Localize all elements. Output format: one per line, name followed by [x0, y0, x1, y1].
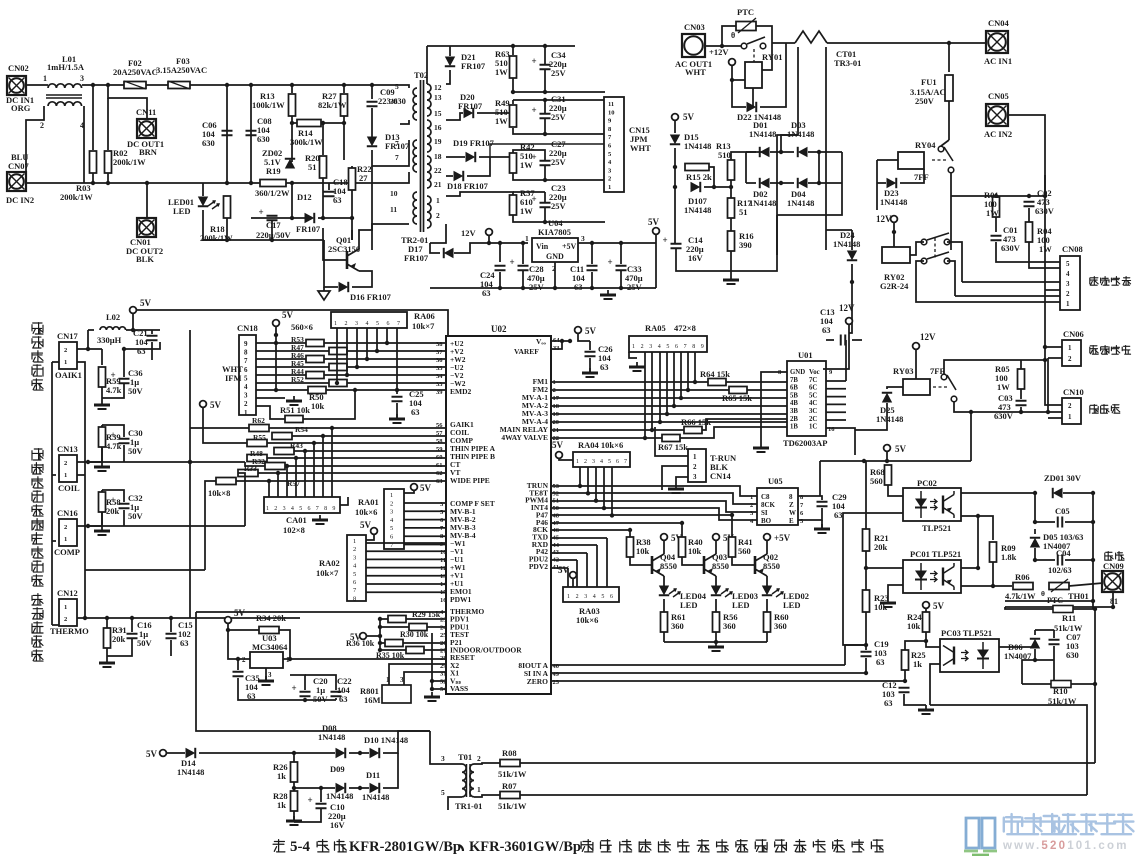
wire [294, 787, 335, 789]
svg-text:6: 6 [387, 321, 390, 327]
svg-text:RA04 10k×6: RA04 10k×6 [578, 440, 623, 450]
svg-text:30: 30 [390, 97, 398, 106]
svg-text:8: 8 [324, 506, 327, 512]
wire rail x190 lower [189, 428, 191, 618]
svg-text:www.520101.com: www.520101.com [1002, 840, 1129, 852]
relay RY02 contact b [921, 252, 950, 264]
svg-text:4.7k/1W: 4.7k/1W [1005, 591, 1036, 601]
svg-text:RY03: RY03 [893, 366, 913, 376]
wire [522, 271, 524, 288]
connector CN02 [7, 76, 26, 95]
wire [279, 630, 290, 659]
svg-text:50V: 50V [128, 386, 144, 396]
svg-text:20k: 20k [112, 634, 126, 644]
svg-text:3: 3 [440, 501, 444, 508]
svg-text:8550: 8550 [763, 561, 780, 571]
watermark book icon [966, 818, 995, 848]
svg-text:12V: 12V [920, 332, 936, 342]
junction [342, 83, 346, 87]
wire [732, 65, 745, 80]
svg-text:9: 9 [332, 506, 335, 512]
wire [83, 106, 85, 124]
wire [366, 635, 380, 637]
svg-text:+12V: +12V [709, 47, 729, 57]
svg-text:D11: D11 [366, 770, 380, 780]
wire [766, 632, 768, 642]
junction [543, 132, 547, 136]
svg-text:CN09: CN09 [1103, 561, 1124, 571]
svg-text:57: 57 [436, 430, 443, 437]
resistor R61 [661, 612, 668, 632]
svg-text:ORG: ORG [11, 103, 31, 113]
svg-text:2: 2 [477, 754, 481, 763]
junction [720, 44, 724, 48]
wire RA06 pin [356, 328, 358, 367]
svg-text:4: 4 [366, 321, 369, 327]
wire rail x52 [51, 362, 53, 625]
svg-text:R30 10k: R30 10k [400, 630, 429, 639]
resistor R51 [285, 416, 303, 423]
junction [1027, 194, 1031, 198]
svg-text:5V: 5V [895, 444, 907, 454]
svg-text:R19: R19 [266, 166, 281, 176]
wire row 4WAY [551, 437, 662, 439]
wire CN12 line [77, 617, 300, 619]
wire [166, 752, 185, 754]
wire [992, 562, 994, 586]
wire [770, 182, 794, 184]
svg-text:D12: D12 [297, 192, 312, 202]
junction [730, 78, 734, 82]
wire PC03 to D06 [999, 646, 1035, 648]
resistor R06 [1013, 583, 1033, 590]
svg-text:R10: R10 [1053, 686, 1068, 696]
wire [781, 135, 798, 152]
svg-text:2: 2 [64, 524, 67, 531]
svg-text:15: 15 [440, 589, 447, 596]
svg-text:5: 5 [395, 82, 399, 91]
svg-text:1: 1 [693, 453, 697, 461]
wire [877, 159, 898, 161]
connector CN08 [1060, 256, 1080, 310]
wire [629, 352, 637, 358]
junction [521, 286, 525, 290]
junction [303, 698, 307, 702]
junction [543, 220, 547, 224]
wire [320, 788, 322, 802]
capacitor C04 [1058, 555, 1063, 566]
svg-text:D10 1N4148: D10 1N4148 [364, 735, 408, 745]
connector CN15 [604, 97, 624, 192]
junction [91, 83, 95, 87]
resistor network RA04 [573, 452, 630, 467]
wire [674, 120, 676, 133]
svg-text:5V: 5V [360, 520, 372, 530]
wire ZERO row [551, 680, 905, 682]
junction [610, 513, 614, 517]
junction [378, 617, 382, 621]
junction [288, 657, 292, 661]
wire [798, 508, 822, 520]
wire right riser 1 [1094, 700, 1096, 763]
wire [446, 156, 465, 158]
RY02 dashed [934, 238, 936, 258]
wire [760, 43, 786, 107]
wire [681, 523, 683, 537]
capacitor C36 [111, 370, 130, 384]
svg-text:51: 51 [739, 207, 748, 217]
svg-text:R64 15k: R64 15k [700, 369, 730, 379]
wire X1 [404, 672, 446, 685]
wire CT01 to D24 [826, 229, 852, 231]
svg-text:R55: R55 [253, 433, 266, 442]
optocoupler PC01 [903, 560, 961, 593]
junction [145, 181, 149, 185]
svg-text:5: 5 [800, 518, 804, 525]
wire [488, 236, 490, 243]
wire [489, 242, 528, 244]
capacitor C16 [119, 625, 138, 639]
svg-text:T01: T01 [458, 752, 472, 762]
CT01 secondary lead 2 [825, 47, 827, 250]
capacitor C07 [1049, 640, 1060, 645]
diode D23 [887, 178, 897, 188]
capacitor C32 [111, 495, 130, 509]
svg-text:8: 8 [789, 493, 793, 501]
wire [1021, 359, 1045, 361]
wire [887, 387, 903, 389]
wire EMD2 row [256, 389, 446, 391]
svg-text:63: 63 [482, 288, 491, 298]
svg-text:L02: L02 [106, 312, 120, 322]
resistor R54 [272, 433, 292, 440]
IC U03 MC34064 [250, 652, 283, 668]
svg-text:FU1: FU1 [921, 77, 937, 87]
junction [619, 286, 623, 290]
wire [970, 412, 972, 461]
svg-text:1N4148: 1N4148 [876, 414, 903, 424]
wire [512, 46, 514, 55]
wire [888, 585, 903, 598]
wire riser [1094, 609, 1096, 700]
svg-text:2: 2 [353, 546, 356, 553]
wire CA01 drop [322, 436, 324, 497]
terminal 12V RY02 [876, 214, 897, 224]
wire [620, 243, 622, 264]
connector CN13 [59, 455, 77, 482]
resistor R08 [500, 760, 520, 767]
wire RA03 pin riser [606, 538, 608, 587]
wire [380, 618, 388, 620]
svg-text:PDV2: PDV2 [529, 562, 548, 571]
svg-text:63: 63 [834, 510, 843, 520]
svg-text:7FF: 7FF [914, 172, 929, 182]
resistor R40 [679, 537, 686, 557]
wire [1065, 559, 1093, 561]
wire CN13 pin2 line [77, 461, 245, 463]
svg-text:1: 1 [477, 785, 481, 794]
wire RA06 pin [386, 328, 388, 343]
svg-text:5: 5 [353, 571, 356, 578]
LED03 arrows [721, 589, 732, 597]
wire [821, 520, 823, 528]
wire [467, 157, 490, 176]
wire [819, 461, 821, 496]
wire CA01 drop [286, 466, 288, 497]
svg-text:360/1/2W: 360/1/2W [255, 188, 290, 198]
wire [446, 113, 463, 120]
wire [432, 688, 446, 690]
wire [132, 313, 134, 329]
junction [91, 181, 95, 185]
wire [620, 271, 622, 288]
resistor fuse F02 [124, 82, 146, 89]
wire [199, 752, 335, 754]
RY04 dashed [932, 159, 946, 161]
svg-text:LED: LED [680, 600, 697, 610]
wire RA02 row [366, 567, 446, 569]
svg-text:61: 61 [436, 462, 443, 469]
junction [1033, 658, 1037, 662]
junction [602, 506, 606, 510]
junction [730, 513, 734, 517]
wire [372, 150, 400, 166]
svg-text:6: 6 [800, 510, 804, 517]
resistor fuse FU1 [945, 75, 953, 101]
T01 core [466, 764, 468, 797]
svg-text:WHT: WHT [630, 143, 651, 153]
resistor network RA06 [331, 312, 407, 328]
wire [1045, 289, 1060, 291]
wire [205, 481, 216, 570]
wire row MV-A [551, 413, 787, 415]
wire [962, 281, 1060, 283]
svg-text:+: + [308, 795, 313, 805]
svg-text:CN12: CN12 [57, 588, 78, 598]
wire [589, 341, 591, 350]
junction [345, 373, 349, 377]
svg-text:560: 560 [738, 546, 751, 556]
wire [1020, 407, 1022, 412]
wire [146, 84, 168, 86]
junction [850, 280, 854, 284]
resonator R801 [382, 685, 411, 703]
ground R31 [99, 658, 115, 667]
resistor R13 [289, 94, 296, 116]
wire [910, 242, 924, 255]
svg-text:12V: 12V [461, 228, 477, 238]
wire [1073, 608, 1095, 610]
svg-text:16M: 16M [364, 695, 381, 705]
T02 secondary winding 2 [427, 120, 431, 152]
wire [949, 42, 986, 44]
wire [1022, 683, 1051, 685]
svg-text:630: 630 [257, 134, 270, 144]
svg-text:2: 2 [64, 347, 67, 354]
wire P47 row [551, 514, 732, 516]
wire [944, 360, 1021, 374]
wire [731, 152, 764, 160]
ground R58 [94, 526, 110, 535]
wire [849, 264, 852, 333]
junction [590, 241, 594, 245]
junction [226, 628, 230, 632]
terminal 12V C13 [839, 303, 855, 324]
wire [251, 217, 311, 219]
resistor R01 [993, 197, 1000, 217]
terminal 12V RY03 [913, 332, 936, 349]
svg-text:CA01: CA01 [286, 515, 307, 525]
wire [305, 675, 336, 690]
junction [892, 230, 896, 234]
svg-text:5V: 5V [282, 310, 294, 320]
svg-text:2: 2 [274, 506, 277, 512]
svg-text:6: 6 [440, 517, 444, 524]
resistor R42 [510, 153, 517, 173]
wire [845, 645, 866, 665]
wire [513, 128, 605, 134]
wire RA01 row [404, 502, 446, 504]
svg-text:5: 5 [299, 506, 302, 512]
wire [709, 167, 714, 187]
label exhaust sensor CJK [32, 519, 43, 587]
wire [126, 329, 160, 331]
junction [130, 616, 134, 620]
connector CN01 [137, 218, 156, 237]
svg-text:3B: 3B [790, 408, 798, 415]
junction [686, 388, 690, 392]
terminal 5V CN18 [273, 310, 294, 326]
svg-text:14: 14 [440, 581, 447, 588]
wire [383, 753, 398, 788]
wire right rail x1093 [1092, 493, 1094, 609]
svg-text:5: 5 [440, 509, 444, 516]
wire [106, 648, 108, 658]
wire SIIN row [551, 672, 866, 674]
svg-text:RY04: RY04 [915, 140, 936, 150]
wire RA04 drop [603, 467, 605, 508]
wire Q01 collector [359, 166, 372, 249]
svg-text:5V: 5V [420, 483, 432, 493]
svg-text:7: 7 [800, 502, 804, 509]
svg-text:6: 6 [675, 344, 678, 350]
wire long y607 [1005, 606, 1113, 608]
wire row to RA03 [551, 559, 577, 561]
junction [1019, 410, 1023, 414]
wire [551, 341, 562, 349]
junction [1091, 558, 1095, 562]
svg-text:4: 4 [291, 506, 294, 512]
junction [779, 181, 783, 185]
wire [1044, 290, 1046, 347]
wire [430, 224, 446, 243]
wire [951, 195, 1045, 197]
junction [672, 404, 676, 408]
resistor R65 [729, 387, 747, 394]
junction [714, 640, 718, 644]
svg-text:10k×7: 10k×7 [412, 321, 435, 331]
wire [88, 425, 102, 462]
wire [190, 427, 249, 429]
svg-text:10: 10 [390, 189, 398, 198]
wire base [732, 557, 755, 565]
terminal 5V right of U04 [648, 217, 660, 234]
wire [705, 45, 741, 47]
svg-text:3: 3 [750, 510, 754, 517]
wire [559, 458, 573, 460]
wire row MV-A [551, 397, 787, 399]
wire [380, 642, 385, 644]
svg-text:2: 2 [1068, 355, 1072, 363]
wire CA01 drop [277, 473, 279, 497]
wire [715, 632, 717, 642]
wire [513, 173, 605, 180]
svg-text:1: 1 [43, 74, 47, 83]
capacitor C30 [111, 430, 130, 444]
wire [303, 390, 355, 419]
junction [729, 185, 733, 189]
wire [513, 99, 605, 101]
wire [662, 466, 688, 490]
svg-text:D09: D09 [330, 764, 345, 774]
svg-text:CN16: CN16 [57, 508, 78, 518]
wire [292, 116, 297, 123]
junction [1091, 491, 1095, 495]
diode D14 [186, 748, 196, 758]
wire row CS [551, 486, 757, 496]
wire rail x196 to T01 [196, 660, 430, 731]
wire [731, 215, 777, 271]
svg-text:5: 5 [390, 525, 393, 532]
ground C29 [814, 524, 830, 533]
svg-text:3: 3 [353, 554, 356, 561]
wire 5V stub rail [379, 619, 381, 650]
svg-text:1: 1 [436, 196, 440, 205]
wire [347, 366, 446, 368]
IC U02 microcontroller [446, 336, 551, 694]
svg-text:4: 4 [244, 383, 248, 391]
terminal 5V RA03 [558, 565, 576, 578]
wire [271, 220, 273, 240]
wire [866, 567, 903, 569]
svg-text:5: 5 [1066, 260, 1070, 268]
wire RA01 row [404, 519, 446, 521]
wire [916, 290, 1060, 302]
svg-text:1: 1 [334, 321, 337, 327]
svg-text:1: 1 [353, 538, 356, 545]
svg-text:2: 2 [244, 400, 248, 408]
svg-text:5C: 5C [809, 392, 817, 399]
junction [1091, 520, 1095, 524]
junction [578, 484, 582, 488]
wire [237, 659, 239, 670]
transistor Q03 [704, 554, 716, 576]
capacitor C24 [495, 266, 506, 271]
svg-text:2: 2 [64, 460, 67, 467]
optocoupler PC03 [940, 639, 999, 672]
wire bottom rail [26, 182, 400, 184]
svg-text:7: 7 [316, 506, 319, 512]
wire [1035, 649, 1054, 660]
ground R39 [94, 462, 110, 471]
capacitor C20 [292, 683, 311, 697]
wire RA06 pin [336, 328, 338, 383]
svg-text:6B: 6B [790, 385, 798, 392]
wire RA04 drop [579, 467, 581, 486]
resistor thermistor PTC [736, 22, 756, 31]
connector CN10 [1062, 398, 1081, 424]
junction [131, 328, 135, 332]
